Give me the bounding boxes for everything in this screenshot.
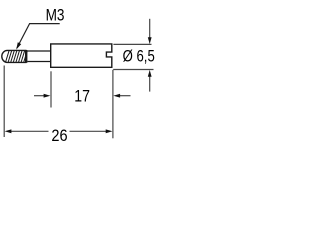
svg-text:Ø 6,5: Ø 6,5: [123, 46, 155, 65]
svg-text:M3: M3: [46, 7, 65, 25]
svg-text:17: 17: [74, 87, 90, 105]
svg-text:26: 26: [51, 127, 67, 145]
